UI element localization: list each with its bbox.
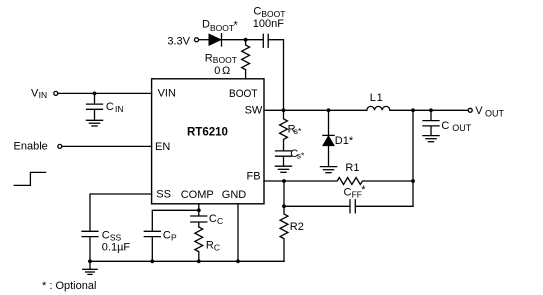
- svg-text:L1: L1: [370, 92, 384, 104]
- wire feedback vertical: [412, 110, 414, 206]
- svg-text:0: 0: [214, 65, 220, 77]
- wire 3.3V to diode: [199, 39, 209, 41]
- label CBOOT 100nF: [253, 5, 286, 30]
- svg-text:* : Optional: * : Optional: [42, 280, 96, 292]
- diode D1: [323, 135, 334, 166]
- node R1 right junction: [411, 179, 415, 183]
- svg-text:s*: s*: [297, 150, 305, 160]
- svg-text:V: V: [475, 105, 483, 117]
- ground D1: [320, 167, 336, 173]
- ground CIN: [86, 120, 102, 126]
- wire FB pin: [264, 180, 284, 182]
- svg-text:0.1µF: 0.1µF: [102, 241, 131, 253]
- node VIN/CIN junction: [93, 92, 97, 96]
- label CIN: [106, 101, 124, 114]
- label RC: [206, 240, 220, 253]
- label RS*: [288, 123, 302, 135]
- svg-text:C: C: [441, 120, 449, 132]
- terminal 3.3V: [167, 35, 198, 47]
- svg-text:C: C: [209, 213, 217, 225]
- capacitor CP: [144, 231, 160, 261]
- node feedback tap junction: [411, 108, 415, 112]
- svg-text:C: C: [214, 243, 220, 253]
- svg-text:D: D: [202, 19, 210, 31]
- svg-text:s*: s*: [294, 126, 302, 136]
- svg-text:100nF: 100nF: [253, 18, 284, 30]
- wire D1 branch: [328, 110, 330, 135]
- ground rail symbol: [83, 261, 97, 274]
- svg-text:P: P: [171, 233, 177, 243]
- label DBOOT*: [202, 19, 239, 33]
- IC U1 RT6210 body: [152, 79, 264, 204]
- label CP: [163, 229, 177, 242]
- node rail CP: [150, 259, 154, 263]
- wire CBOOT to SW net: [268, 40, 283, 111]
- svg-text:SS: SS: [156, 189, 171, 201]
- svg-text:IN: IN: [115, 104, 124, 114]
- wire GND pin down: [237, 204, 239, 261]
- svg-text:VIN: VIN: [158, 88, 176, 100]
- svg-text:C: C: [106, 101, 114, 113]
- svg-text:BOOT: BOOT: [229, 88, 258, 100]
- wire ground rail: [90, 260, 284, 262]
- resistor RC: [195, 227, 203, 261]
- node CFF junction: [282, 204, 286, 208]
- resistor R1: [284, 178, 413, 185]
- svg-text:OUT: OUT: [452, 123, 472, 133]
- wire Enable input: [14, 141, 152, 153]
- svg-text:R1: R1: [345, 162, 359, 174]
- node SW/CBOOT/RS junction: [282, 108, 286, 112]
- wire FB down to CFF: [283, 181, 285, 206]
- capacitor CFF: [284, 200, 413, 213]
- svg-text:D1*: D1*: [335, 135, 354, 147]
- wire COMP pin down: [198, 204, 200, 211]
- resistor R2: [280, 206, 288, 261]
- svg-text:R: R: [206, 240, 214, 252]
- svg-text:GND: GND: [222, 189, 247, 201]
- node COMP junction: [197, 208, 201, 212]
- capacitor CC: [191, 210, 207, 227]
- svg-text:RT6210: RT6210: [187, 127, 228, 139]
- node rail GND: [236, 259, 240, 263]
- svg-text:C: C: [163, 229, 171, 241]
- svg-text:FB: FB: [247, 170, 261, 182]
- svg-text:Ω: Ω: [222, 65, 230, 77]
- wire COMP to CP: [152, 210, 199, 230]
- node rail CSS: [88, 259, 92, 263]
- ground COUT: [423, 136, 439, 142]
- svg-text:*: *: [234, 20, 239, 32]
- capacitor CBOOT: [263, 34, 268, 47]
- svg-text:C: C: [102, 229, 110, 241]
- svg-text:BOOT: BOOT: [210, 23, 234, 33]
- node rail RC: [197, 259, 201, 263]
- resistor RS: [280, 110, 288, 150]
- svg-text:OUT: OUT: [485, 108, 505, 118]
- svg-text:C: C: [217, 216, 223, 226]
- inductor L1: [367, 106, 390, 110]
- ground CS: [275, 166, 291, 172]
- svg-text:3.3V: 3.3V: [167, 35, 190, 47]
- svg-text:C: C: [344, 186, 352, 198]
- svg-text:COMP: COMP: [181, 189, 214, 201]
- wire diode to CBOOT: [222, 39, 263, 41]
- enable step waveform symbol: [14, 172, 45, 185]
- svg-text:IN: IN: [39, 90, 48, 100]
- wire SW line: [264, 109, 367, 111]
- svg-text:BOOT: BOOT: [213, 55, 237, 65]
- label COUT: [441, 120, 471, 133]
- node boot junction: [244, 38, 248, 42]
- svg-text:SW: SW: [245, 105, 263, 117]
- capacitor CIN: [87, 93, 103, 119]
- label CFF*: [344, 184, 367, 199]
- label RBOOT: [205, 52, 237, 65]
- label CS*: [290, 148, 305, 161]
- capacitor CSS: [82, 231, 98, 261]
- svg-text:C: C: [253, 5, 261, 17]
- node COUT junction: [429, 108, 433, 112]
- svg-text:R2: R2: [290, 221, 304, 233]
- wire SS to CSS: [90, 194, 152, 231]
- svg-text:EN: EN: [155, 141, 170, 153]
- capacitor COUT: [423, 110, 439, 135]
- label CC: [209, 213, 223, 226]
- svg-text:*: *: [361, 184, 366, 196]
- resistor RBOOT: [242, 40, 250, 79]
- label CSS 0.1uF: [102, 229, 131, 253]
- node SW/D1 junction: [327, 108, 331, 112]
- svg-text:Enable: Enable: [14, 141, 48, 153]
- node FB junction: [282, 179, 286, 183]
- svg-text:R: R: [205, 52, 213, 64]
- wire L1 to VOUT: [390, 109, 468, 111]
- wire VIN input: [31, 87, 152, 100]
- capacitor CS: [276, 151, 292, 166]
- diode DBOOT: [209, 34, 222, 46]
- label 0 ohm: [214, 65, 230, 77]
- terminal VOUT: [468, 105, 504, 119]
